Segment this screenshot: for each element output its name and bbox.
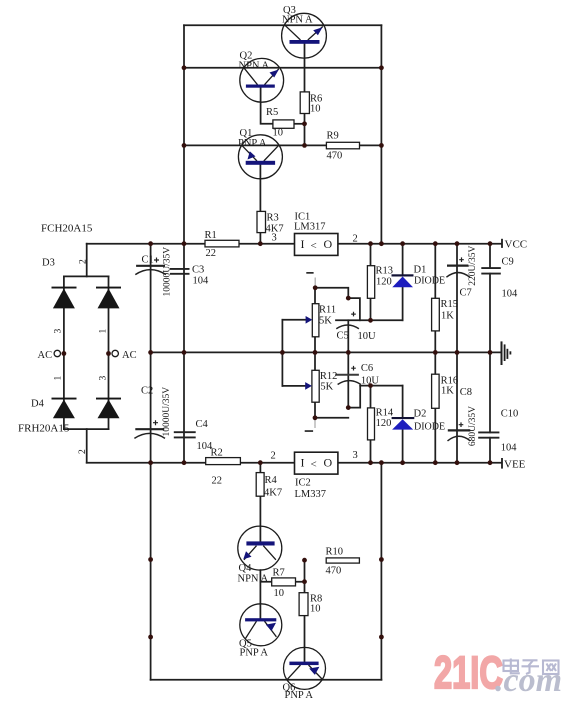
wire bridge left column xyxy=(63,276,65,429)
wire R15 bottom lead xyxy=(434,331,436,353)
wire right rail bottom xyxy=(380,463,382,680)
junction at (490,243.7) xyxy=(488,241,493,246)
svg-text:DIODE: DIODE xyxy=(414,422,445,433)
transistor Q6 xyxy=(284,647,326,689)
diode D2 cathode bar xyxy=(392,417,415,419)
capacitor C2 plus xyxy=(153,420,158,425)
svg-text:2: 2 xyxy=(79,259,89,264)
svg-text:DIODE: DIODE xyxy=(414,276,445,287)
svg-text:10000U/35V: 10000U/35V xyxy=(162,387,172,437)
diode D3 bridge top-left xyxy=(53,289,75,309)
svg-text:104: 104 xyxy=(193,276,210,287)
capacitor C8 plate xyxy=(448,429,471,431)
diode D2 xyxy=(392,419,413,429)
svg-text:22: 22 xyxy=(206,248,217,259)
wire R12 bottom to adj node xyxy=(314,402,316,418)
capacitor C6 curved plate xyxy=(338,381,361,385)
svg-text:10: 10 xyxy=(273,128,284,139)
svg-text:3: 3 xyxy=(353,450,358,461)
wire C5 bottom lead xyxy=(347,320,349,352)
wire Q2 base to R5 xyxy=(261,87,273,124)
junction at (381.4,559.5) xyxy=(379,557,384,562)
junction at (457,243.7) xyxy=(455,241,460,246)
svg-text:1: 1 xyxy=(54,376,64,381)
svg-text:104: 104 xyxy=(501,443,518,454)
svg-text:NPN A: NPN A xyxy=(238,574,269,585)
wire IC2 adj row xyxy=(315,417,348,419)
wire C8 column xyxy=(456,352,458,462)
svg-text:R2: R2 xyxy=(211,448,223,459)
svg-text:10000U/35V: 10000U/35V xyxy=(163,247,173,297)
svg-text:C10: C10 xyxy=(501,409,519,420)
junction at (260.3,462.7) xyxy=(258,460,263,465)
junction at (150.6,352.4) xyxy=(148,350,153,355)
capacitor C2 curved plate xyxy=(134,433,165,438)
svg-text:10U: 10U xyxy=(358,331,377,342)
wire R12 top lead xyxy=(314,352,316,370)
svg-text:VCC: VCC xyxy=(505,239,528,251)
svg-text:3: 3 xyxy=(54,329,64,334)
wire IC2 adj pin faint stub xyxy=(314,418,316,428)
wire Q2 row xyxy=(184,67,381,69)
wire IC2 output rail to VEE xyxy=(338,462,502,464)
junction at (150.6,243.7) xyxy=(148,241,153,246)
svg-text:2: 2 xyxy=(78,449,88,454)
capacitor C5 curved plate xyxy=(336,325,359,329)
junction at (304.5,123.8) xyxy=(302,121,307,126)
junction at (435.3,462.7) xyxy=(433,460,438,465)
svg-text:FRH20A15: FRH20A15 xyxy=(18,423,70,435)
junction at (435.3,243.7) xyxy=(433,241,438,246)
junction at (381.4,243.7) xyxy=(379,241,384,246)
junction at (315.2,287.8) xyxy=(313,285,318,290)
junction at (304.5,560.2) xyxy=(302,558,307,563)
pin 1 sideways label IC2 adj xyxy=(305,430,313,432)
junction at (63.9,353.5) xyxy=(62,351,67,356)
svg-text:C5: C5 xyxy=(337,331,349,342)
resistor R15 xyxy=(432,298,440,331)
wire R11 bottom lead xyxy=(314,337,316,353)
wire R5 right to R6 column xyxy=(294,123,305,125)
ground xyxy=(502,341,511,365)
resistor R13 xyxy=(367,266,374,299)
svg-text:1K: 1K xyxy=(441,311,454,322)
junction at (150.6,559.5) xyxy=(148,557,153,562)
svg-text:104: 104 xyxy=(502,289,519,300)
svg-text:PNP A: PNP A xyxy=(285,690,314,701)
capacitor C6 plate xyxy=(335,374,359,376)
junction at (402.6,462.7) xyxy=(400,460,405,465)
transistor Q2 xyxy=(240,58,284,102)
svg-text:I: I xyxy=(301,237,305,251)
wire bottom loop xyxy=(151,679,382,681)
svg-text:O: O xyxy=(324,456,333,470)
junction at (370.5,385.6) xyxy=(368,383,373,388)
svg-text:FCH20A15: FCH20A15 xyxy=(41,223,93,235)
svg-text:AC: AC xyxy=(38,350,53,361)
junction at (457,352.4) xyxy=(455,350,460,355)
svg-text:<: < xyxy=(311,459,317,471)
wire C7 column xyxy=(456,244,458,353)
diode D4 bridge bottom-left xyxy=(53,400,75,419)
svg-text:R14: R14 xyxy=(376,408,394,419)
svg-text:R5: R5 xyxy=(266,107,278,118)
diode D4 bridge bottom-right bar xyxy=(96,398,121,400)
wire R16 leads xyxy=(434,352,436,462)
svg-text:R7: R7 xyxy=(273,568,285,579)
junction at (184,243.7) xyxy=(182,241,187,246)
svg-text:10U: 10U xyxy=(361,376,380,387)
wire C6 R14 D2 row xyxy=(360,385,402,387)
svg-text:PNP A: PNP A xyxy=(240,648,269,659)
svg-text:120: 120 xyxy=(376,277,392,288)
svg-text:4K7: 4K7 xyxy=(264,488,282,499)
diode D1 xyxy=(392,277,413,288)
junction at (184,352.4) xyxy=(182,350,187,355)
wire C1 C2 tall column xyxy=(150,244,152,680)
svg-text:D2: D2 xyxy=(414,409,427,420)
capacitor C1 plate xyxy=(136,265,165,267)
wire IC1 adj pin faint stub xyxy=(314,278,316,288)
junction at (402.6,243.7) xyxy=(400,241,405,246)
svg-text:470: 470 xyxy=(327,151,343,162)
wire C9 leads xyxy=(489,244,491,353)
diode D3 bridge top-right xyxy=(98,289,120,309)
potentiometer R12 wiper arrow xyxy=(305,382,312,390)
junction at (184,462.7) xyxy=(182,460,187,465)
junction at (457,462.7) xyxy=(455,460,460,465)
svg-text:R11: R11 xyxy=(319,305,336,316)
wire D2 leads xyxy=(402,386,404,463)
VEE terminal tick xyxy=(501,458,503,469)
svg-text:R9: R9 xyxy=(327,131,339,142)
junction at (348.3,407.6) xyxy=(346,405,351,410)
svg-text:C2: C2 xyxy=(141,386,153,397)
junction at (315,352.4) xyxy=(313,350,318,355)
svg-text:R4: R4 xyxy=(265,475,278,486)
wire R13 top stub xyxy=(370,244,372,266)
svg-text:<: < xyxy=(311,240,317,252)
svg-text:22: 22 xyxy=(212,476,223,487)
svg-text:IC2: IC2 xyxy=(295,478,311,489)
wire IC1 adj jog xyxy=(348,298,360,320)
resistor R7 xyxy=(272,578,296,586)
diode D4 bridge bottom-left bar xyxy=(52,398,77,400)
resistor R14 xyxy=(368,408,375,440)
diode D4 bridge bottom-right xyxy=(98,400,120,419)
svg-text:I: I xyxy=(301,456,305,470)
svg-text:10: 10 xyxy=(310,604,321,615)
transistor Q4 xyxy=(238,526,282,570)
wire R15 top stub xyxy=(434,244,436,299)
junction at (381.4,145.4) xyxy=(379,143,384,148)
capacitor C6 plus xyxy=(351,366,356,371)
wire R8 to Q6 base xyxy=(304,616,306,662)
junction at (282.4,352.4) xyxy=(280,350,285,355)
svg-text:3: 3 xyxy=(272,233,277,244)
wire IC1 adj row xyxy=(315,288,348,298)
junction at (348.3,298.1) xyxy=(346,296,351,301)
svg-text:C6: C6 xyxy=(361,363,373,374)
transistor Q5 xyxy=(240,604,282,646)
svg-text:10: 10 xyxy=(310,104,321,115)
svg-text:21IC: 21IC xyxy=(434,648,503,698)
transistor Q3 xyxy=(282,13,327,58)
potentiometer R12 xyxy=(312,370,319,402)
wire R13 bottom lead xyxy=(370,298,372,320)
capacitor C9 plates xyxy=(481,268,501,274)
junction at (490,352.4) xyxy=(488,350,493,355)
capacitor C10 plates xyxy=(478,432,499,437)
svg-text:1: 1 xyxy=(99,329,109,334)
capacitor C5 plus xyxy=(351,312,356,317)
resistor R6 xyxy=(300,92,309,114)
pin 1 sideways label IC1 adj xyxy=(306,272,313,274)
junction at (370.5,462.7) xyxy=(368,460,373,465)
wire C6 column xyxy=(347,352,349,407)
svg-text:3: 3 xyxy=(99,376,109,381)
svg-text:NPN A: NPN A xyxy=(239,61,270,72)
junction at (370.5,320.3) xyxy=(368,318,373,323)
svg-text:R1: R1 xyxy=(205,230,217,241)
junction at (150.6,462.7) xyxy=(148,460,153,465)
wire R11 wiper feed xyxy=(282,319,306,321)
potentiometer R11 wiper arrow xyxy=(306,316,313,324)
wire R6 to Q1 row xyxy=(304,114,306,146)
junction at (370.5,243.7) xyxy=(368,241,373,246)
wire bridge right column xyxy=(108,276,110,429)
wire Q3 base lead xyxy=(304,44,306,92)
op-amp U1 IC1 inner symbol xyxy=(301,237,333,252)
wire left rail xyxy=(183,25,185,462)
svg-text:LM337: LM337 xyxy=(295,489,327,500)
svg-text:5K: 5K xyxy=(320,382,333,393)
svg-text:R12: R12 xyxy=(320,371,338,382)
capacitor C7 plus xyxy=(459,257,464,262)
junction at (381.4,462.7) xyxy=(379,460,384,465)
transistor Q1 xyxy=(238,135,282,179)
wire R14 leads xyxy=(370,386,372,463)
wire Q1 row xyxy=(184,144,381,146)
wire mid ground rail xyxy=(151,351,501,353)
potentiometer R11 xyxy=(312,304,319,337)
wire IC1 output rail to VCC xyxy=(338,243,502,245)
diode D1 cathode bar xyxy=(392,274,414,276)
op-amp U2 IC2 LM337 box xyxy=(295,452,338,474)
wire Q1 base lead xyxy=(259,165,261,211)
svg-text:C3: C3 xyxy=(192,265,204,276)
VCC terminal tick xyxy=(501,239,503,248)
svg-text:120: 120 xyxy=(376,418,392,429)
svg-text:1K: 1K xyxy=(441,386,454,397)
junction at (435.3,352.4) xyxy=(433,350,438,355)
svg-text:2: 2 xyxy=(271,451,276,462)
terminal AC left xyxy=(54,350,60,356)
svg-text:10: 10 xyxy=(274,588,285,599)
junction at (381.4,67.8) xyxy=(379,65,384,70)
svg-text:220U/35V: 220U/35V xyxy=(468,246,478,286)
svg-text:D1: D1 xyxy=(414,265,427,276)
svg-text:C8: C8 xyxy=(460,387,472,398)
wire bridge top stub xyxy=(86,244,88,277)
wire bridge bottom bar xyxy=(64,428,109,430)
svg-text:R13: R13 xyxy=(376,266,394,277)
svg-text:5K: 5K xyxy=(319,316,332,327)
resistor R2 xyxy=(206,458,241,465)
wire R3 bottom stub xyxy=(259,233,261,244)
resistor R10 xyxy=(326,558,359,563)
svg-text:NPN A: NPN A xyxy=(282,15,313,26)
junction at (108.5,353.5) xyxy=(106,351,111,356)
resistor R16 xyxy=(432,374,440,408)
junction at (490,462.7) xyxy=(488,460,493,465)
capacitor C3 plates xyxy=(170,269,190,274)
svg-text:C1: C1 xyxy=(142,255,154,266)
junction at (304.5,581.7) xyxy=(302,579,307,584)
wire bridge top bar xyxy=(64,275,109,277)
wire IC2 adj jog xyxy=(348,386,360,408)
svg-text:R10: R10 xyxy=(326,547,344,558)
wire pot feed column xyxy=(281,320,283,386)
svg-text:LM317: LM317 xyxy=(294,222,326,233)
svg-text:Q4: Q4 xyxy=(239,563,253,574)
wire top rail to IC1 input xyxy=(87,243,295,245)
svg-text:680U/35V: 680U/35V xyxy=(468,406,478,446)
capacitor C8 plus xyxy=(459,422,464,427)
capacitor C8 curved plate xyxy=(448,436,471,441)
watermark logo chinese chars xyxy=(504,659,559,675)
resistor R1 xyxy=(205,240,239,247)
junction at (184,67.8) xyxy=(182,65,187,70)
svg-text:C9: C9 xyxy=(502,257,514,268)
wire R4 to Q4 base xyxy=(259,496,261,541)
wire Q4 emitter to R7 row and Q5 base xyxy=(259,570,261,618)
junction at (304.5,145.4) xyxy=(302,143,307,148)
wire C5 R13 D1 row xyxy=(336,319,403,321)
svg-text:PNP A: PNP A xyxy=(238,138,267,149)
svg-text:O: O xyxy=(324,237,333,251)
capacitor C7 curved plate xyxy=(446,273,469,278)
capacitor C2 plate xyxy=(135,428,164,430)
svg-text:2: 2 xyxy=(353,233,358,244)
wire D1 leads xyxy=(402,244,404,321)
junction at (348.3,352.4) xyxy=(346,350,351,355)
svg-text:C7: C7 xyxy=(460,288,472,299)
capacitor C1 curved plate xyxy=(135,270,166,275)
diode D3 bridge top-left bar xyxy=(52,287,77,289)
junction at (150.6,637) xyxy=(148,635,153,640)
capacitor C4 plates xyxy=(174,432,196,437)
wire R12 wiper feed xyxy=(282,385,306,387)
wire top row xyxy=(184,24,381,26)
svg-text:470: 470 xyxy=(326,566,342,577)
op-amp U2 IC2 inner symbol xyxy=(301,456,333,471)
capacitor C1 plus xyxy=(154,258,159,263)
resistor R5 xyxy=(273,120,294,128)
diode D3 bridge top-right bar xyxy=(96,287,121,289)
capacitor C7 plate xyxy=(447,265,468,267)
svg-text:D4: D4 xyxy=(31,399,45,410)
junction at (260.3,243.7) xyxy=(258,241,263,246)
svg-text:VEE: VEE xyxy=(504,459,526,471)
resistor R4 xyxy=(256,473,264,497)
wire R4 top stub xyxy=(259,463,261,473)
junction at (184,145.4) xyxy=(182,143,187,148)
svg-text:AC: AC xyxy=(122,350,137,361)
junction at (381.4,637) xyxy=(379,635,384,640)
svg-text:R3: R3 xyxy=(267,213,279,224)
svg-text:D3: D3 xyxy=(42,258,55,269)
resistor R3 xyxy=(257,211,266,232)
wire R8 column upper xyxy=(304,560,306,593)
wire right rail top xyxy=(380,25,382,243)
resistor R8 xyxy=(299,593,308,616)
wire R7 row xyxy=(260,581,304,583)
resistor R9 xyxy=(326,142,359,149)
terminal AC right xyxy=(112,350,118,356)
wire bridge bottom stub xyxy=(86,429,88,463)
wire bottom rail to IC2 input xyxy=(87,462,295,464)
svg-text:R15: R15 xyxy=(441,299,459,310)
wire R11 top lead xyxy=(314,288,316,304)
svg-text:C4: C4 xyxy=(196,419,209,430)
op-amp U1 IC1 LM317 box xyxy=(295,234,338,256)
junction at (315,417.8) xyxy=(313,415,318,420)
wire C10 leads xyxy=(489,352,491,462)
